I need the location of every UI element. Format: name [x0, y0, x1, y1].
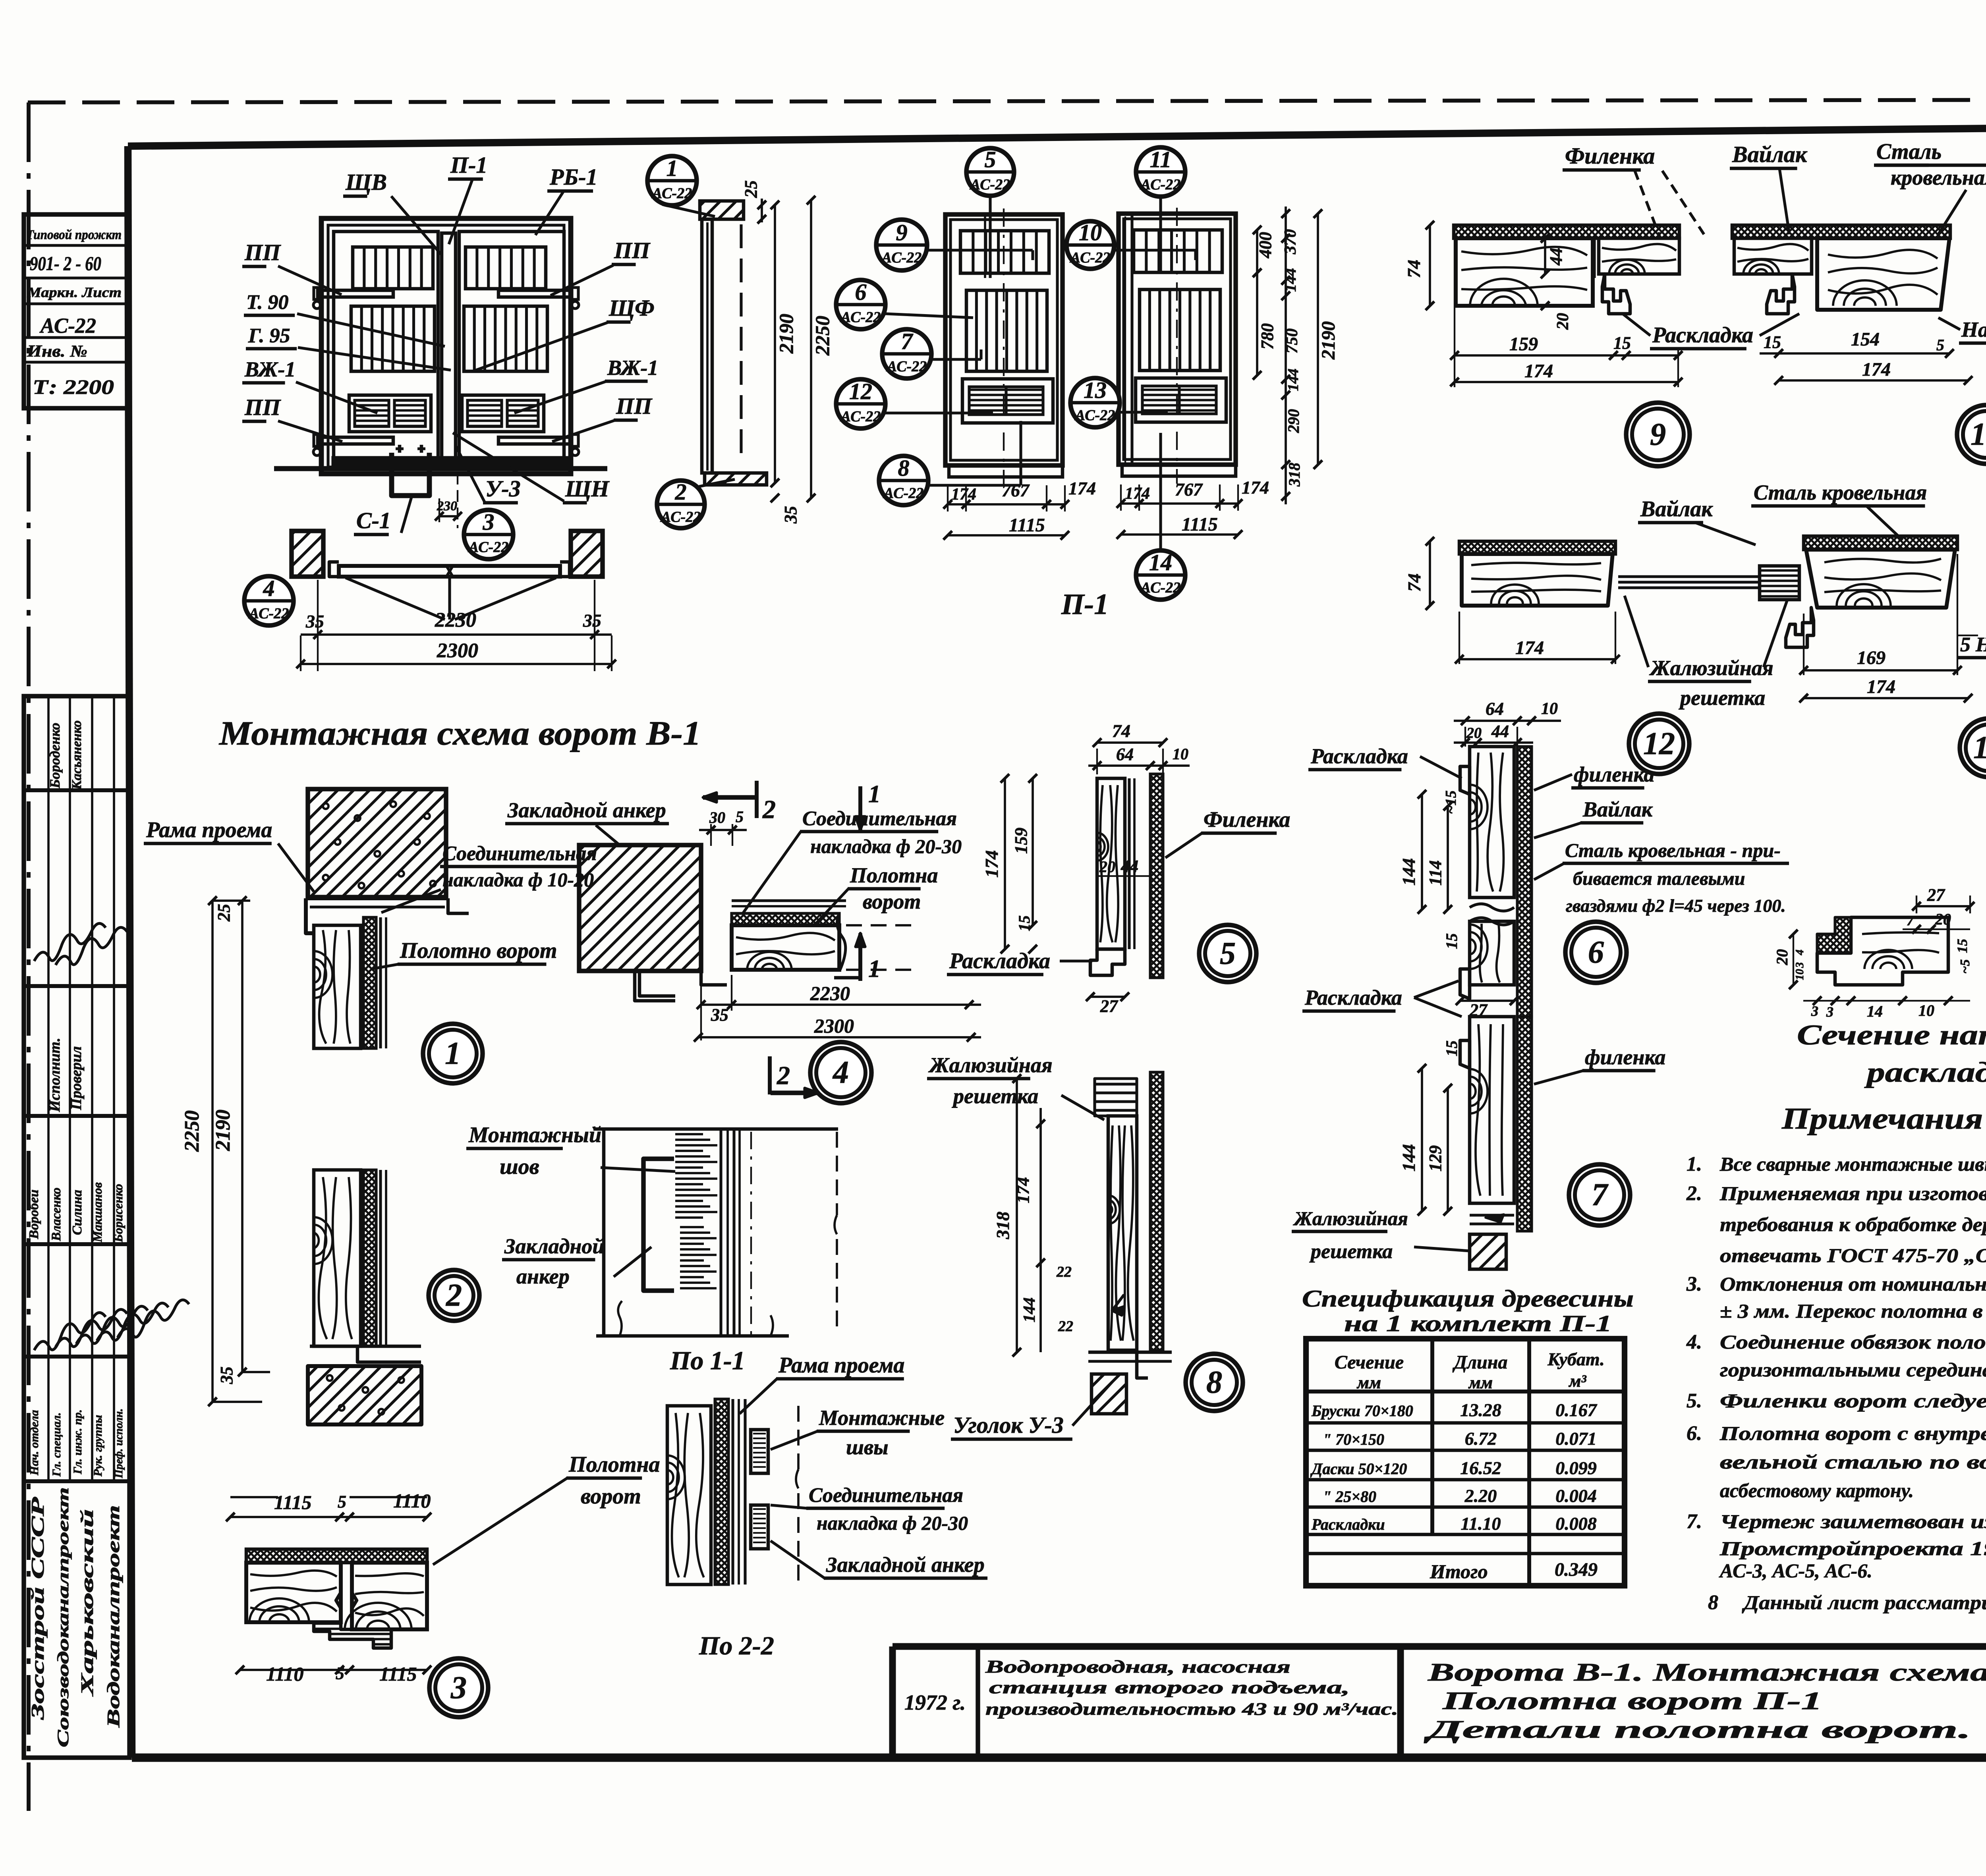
svg-text:Сталь кровельная: Сталь кровельная	[1754, 481, 1927, 504]
svg-text:Полотна: Полотна	[568, 1452, 660, 1477]
svg-text:Т: 2200: Т: 2200	[33, 376, 114, 399]
svg-text:64: 64	[1486, 699, 1504, 719]
detail 5 felt strip	[1150, 774, 1163, 978]
раскладка section dim 27	[1916, 905, 1970, 907]
svg-text:Нащельник: Нащельник	[1961, 318, 1986, 342]
title block vline 2462	[976, 1646, 980, 1758]
gate right mid window	[464, 306, 547, 371]
detail 6 raskladka top	[1460, 766, 1470, 794]
detail 6 plank lower	[1470, 921, 1514, 985]
callout 2 gate side	[657, 481, 705, 528]
detail 5 dim 64-10	[1088, 764, 1190, 767]
svg-text:АС-22: АС-22	[840, 408, 881, 425]
svg-text:12: 12	[1643, 726, 1675, 761]
svg-text:1: 1	[868, 781, 881, 808]
sidebar box A row line 3	[24, 302, 129, 305]
sidebar signature 1	[34, 923, 106, 961]
svg-text:2.: 2.	[1686, 1182, 1702, 1205]
svg-text:решетка: решетка	[952, 1084, 1038, 1108]
detail 4 mark 2 top	[703, 795, 755, 799]
detail 8 hatch block	[1092, 1374, 1126, 1414]
svg-text:Рама проема: Рама проема	[778, 1353, 904, 1378]
svg-text:2230: 2230	[810, 982, 850, 1004]
detail 1 felt strip	[363, 917, 376, 1048]
svg-text:13: 13	[1973, 730, 1986, 765]
detail 4 plank	[732, 925, 839, 970]
svg-text:Власенко: Власенко	[49, 1187, 64, 1241]
detail circle 8	[1186, 1354, 1243, 1411]
svg-text:64: 64	[1116, 745, 1134, 764]
svg-text:асбестовому картону.: асбестовому картону.	[1720, 1479, 1914, 1502]
svg-text:2190: 2190	[212, 1110, 234, 1151]
svg-text:174: 174	[1524, 361, 1553, 382]
side view top anchor block	[700, 201, 744, 219]
svg-text:9: 9	[896, 220, 908, 245]
gate bottom rail right	[498, 437, 571, 444]
svg-text:производительностью 43 и 90 м: производительностью 43 и 90 м³/час.	[985, 1699, 1398, 1719]
spec table vline col1	[1430, 1339, 1434, 1534]
П-1 dim chain small	[1256, 230, 1258, 273]
detail 6 felt strip	[1517, 747, 1532, 1017]
svg-text:318: 318	[993, 1212, 1013, 1239]
svg-text:Полотно ворот: Полотно ворот	[400, 938, 557, 963]
svg-text:АС-22: АС-22	[886, 358, 927, 375]
detail 4 steel angle	[635, 971, 675, 1001]
svg-text:± 3 мм. Перекос полотна в п: ± 3 мм. Перекос полотна в плоскости воро…	[1720, 1300, 1986, 1322]
svg-text:АС-22: АС-22	[881, 249, 922, 266]
svg-text:144: 144	[1281, 268, 1299, 292]
svg-text:15: 15	[1443, 933, 1461, 949]
svg-text:12: 12	[849, 378, 872, 404]
gate hinge pins	[313, 301, 321, 309]
svg-text:Закладной анкер: Закладной анкер	[826, 1553, 985, 1577]
svg-text:станция второго подъема,: станция второго подъема,	[989, 1677, 1350, 1697]
callout 4 lintel	[244, 576, 294, 625]
detail 9 right plank	[1599, 238, 1679, 274]
svg-text:15: 15	[1443, 1040, 1461, 1056]
svg-text:ворот: ворот	[863, 890, 921, 913]
side view dim 2250	[810, 200, 812, 498]
detail 6 dim 64-10	[1454, 720, 1561, 722]
svg-text:8: 8	[898, 455, 910, 481]
svg-text:Чертеж заиметвован из тип: Чертеж заиметвован из типового проекта 4…	[1720, 1510, 1986, 1532]
svg-text:9: 9	[1650, 417, 1666, 452]
По 1-1 dashed right	[836, 1132, 838, 1215]
sidebar hline 3416	[24, 1355, 129, 1359]
svg-text:" 25×80: " 25×80	[1323, 1488, 1376, 1505]
detail 9 dim row 159-15	[1455, 354, 1678, 357]
svg-text:74: 74	[1112, 721, 1130, 741]
detail 12 plank	[1462, 554, 1613, 606]
svg-text:Филенки ворот следует собир: Филенки ворот следует собирать из досок …	[1720, 1390, 1986, 1412]
lintel V leaders	[346, 577, 556, 620]
side view dim 2190	[774, 205, 776, 483]
svg-text:Макшанов: Макшанов	[90, 1182, 104, 1243]
svg-text:Уголок У-3: Уголок У-3	[953, 1412, 1064, 1438]
svg-text:По 1-1: По 1-1	[670, 1346, 745, 1375]
detail 9 dim row 174	[1455, 381, 1678, 383]
detail 4 mark 2 bottom	[768, 1056, 772, 1094]
spec table vline col2	[1527, 1339, 1531, 1586]
svg-text:Водопроводная, насосная: Водопроводная, насосная	[985, 1656, 1291, 1677]
svg-text:35: 35	[781, 506, 800, 524]
svg-text:1: 1	[445, 1036, 461, 1071]
detail 4 dim 35-2230	[701, 1004, 981, 1006]
svg-text:174: 174	[1867, 676, 1895, 697]
svg-text:144: 144	[1285, 369, 1302, 391]
title block vline 3526	[1397, 1646, 1404, 1758]
svg-text:Исполнит.: Исполнит.	[46, 1038, 63, 1112]
spec table row line 3795	[1306, 1505, 1625, 1509]
lintel right masonry block	[571, 531, 603, 577]
svg-text:горизонтальными серединами д: горизонтальными серединами должно осущес…	[1720, 1359, 1986, 1381]
svg-text:6.: 6.	[1687, 1422, 1702, 1445]
sidebar signature row2 col5	[118, 1300, 189, 1338]
svg-text:Отклонения от номинальных ра: Отклонения от номинальных размеров ворот…	[1720, 1273, 1986, 1295]
svg-text:2230: 2230	[435, 609, 476, 631]
По 2-2 dashed edge	[797, 1406, 800, 1469]
detail circle 13	[1960, 718, 1986, 777]
svg-text:швы: швы	[846, 1435, 889, 1459]
detail 4 dim 2300	[698, 1036, 981, 1038]
detail 12 top strip	[1459, 541, 1615, 554]
По 2-2 anchor combs	[751, 1430, 768, 1473]
detail 7 plank	[1470, 1017, 1514, 1203]
detail 2 panel edge	[379, 1170, 382, 1346]
detail 4 plank break	[837, 913, 846, 970]
side view plank	[702, 219, 712, 473]
svg-text:Раскладка: Раскладка	[1652, 323, 1753, 347]
detail circle 3	[429, 1658, 488, 1717]
раскладка section profile	[1817, 917, 1948, 985]
svg-text:ВЖ-1: ВЖ-1	[607, 356, 658, 380]
svg-text:Полотна ворот П-1: Полотна ворот П-1	[1442, 1687, 1822, 1715]
ground line	[274, 466, 607, 471]
detail 4 mark 1 upper	[858, 786, 862, 830]
svg-text:0.167: 0.167	[1555, 1400, 1598, 1420]
svg-text:Даски 50×120: Даски 50×120	[1310, 1460, 1407, 1478]
sidebar hline 2810	[24, 1114, 129, 1118]
svg-text:44: 44	[1491, 722, 1509, 741]
gate centre stile	[442, 233, 456, 463]
detail 12 louver slats	[1618, 575, 1760, 578]
svg-text:Данный лист рассматривать: Данный лист рассматривать совместно с ли…	[1742, 1591, 1986, 1614]
svg-text:вельной сталью по войлоку: вельной сталью по войлоку смоченному в г…	[1720, 1451, 1986, 1473]
svg-text:РБ-1: РБ-1	[549, 164, 598, 190]
svg-text:АС-22: АС-22	[840, 309, 881, 326]
По 1-1 board lines	[719, 1129, 722, 1336]
detail 9 left plank	[1456, 238, 1593, 306]
section 3 joint profile	[336, 1563, 357, 1629]
detail 2 felt strip	[363, 1170, 376, 1346]
svg-text:174: 174	[981, 850, 1002, 878]
svg-text:решетка: решетка	[1309, 1240, 1393, 1263]
svg-text:Полотна: Полотна	[850, 863, 938, 887]
sheet left dash-dot edge	[27, 102, 31, 1811]
svg-text:Гл. инж. пр.: Гл. инж. пр.	[71, 1409, 84, 1475]
svg-text:шов: шов	[500, 1154, 539, 1179]
svg-text:4: 4	[832, 1055, 849, 1090]
svg-text:5: 5	[1220, 936, 1236, 971]
svg-text:Сечение: Сечение	[1335, 1352, 1404, 1373]
svg-text:1: 1	[868, 955, 881, 982]
svg-text:2: 2	[675, 479, 687, 505]
sidebar vline 232 upper	[91, 696, 93, 1481]
svg-text:АС-22: АС-22	[468, 539, 508, 556]
svg-text:174: 174	[1125, 484, 1150, 503]
sidebar hline 2483	[24, 984, 129, 988]
title block left	[889, 1646, 896, 1758]
callout 5	[966, 148, 1014, 196]
detail 1 panel edge	[379, 917, 382, 1048]
svg-text:Борисенко: Борисенко	[111, 1184, 125, 1243]
spec table row line 3864	[1306, 1533, 1625, 1536]
svg-text:Спецификация древесины: Спецификация древесины	[1302, 1285, 1634, 1312]
lintel dim 2230	[301, 633, 612, 636]
svg-text:2190: 2190	[775, 314, 797, 354]
svg-text:767: 767	[1002, 480, 1030, 500]
svg-text:Монтажная схема ворот В-1: Монтажная схема ворот В-1	[218, 714, 701, 752]
svg-text:накладка ф 20-30: накладка ф 20-30	[817, 1512, 968, 1534]
detail 8 plank	[1108, 1116, 1137, 1350]
svg-text:У-3: У-3	[485, 476, 521, 502]
detail 9 top strip	[1454, 225, 1679, 238]
svg-text:раскладки.: раскладки.	[1864, 1056, 1986, 1088]
svg-text:2250: 2250	[811, 316, 833, 356]
callout 3 lintel	[464, 510, 513, 559]
detail 10 top strip	[1732, 225, 1950, 238]
detail 8 angle bottom	[1088, 1351, 1172, 1354]
svg-text:25: 25	[214, 904, 234, 922]
svg-text:901- 2 - 60: 901- 2 - 60	[30, 252, 101, 274]
svg-text:Раскладка: Раскладка	[1310, 744, 1408, 768]
svg-text:кровельная: кровельная	[1891, 166, 1986, 189]
detail 13 dim 174	[1804, 697, 1968, 699]
gate bottom rail left	[318, 437, 393, 444]
svg-text:25: 25	[741, 180, 761, 198]
sidebar signature row2 col1	[34, 1312, 106, 1350]
detail 10 right plank	[1817, 238, 1949, 310]
detail 7 raskladka mid	[1460, 1040, 1470, 1068]
sidebar signature row2 col3	[76, 1306, 148, 1344]
svg-text:174: 174	[1242, 477, 1269, 498]
svg-text:Вайлак: Вайлак	[1582, 797, 1653, 821]
detail 13 raskladka	[1786, 608, 1814, 647]
svg-text:10: 10	[1541, 700, 1558, 718]
svg-text:13: 13	[1084, 377, 1107, 403]
section 3 left plank	[246, 1563, 341, 1622]
svg-text:Проверил: Проверил	[68, 1046, 85, 1110]
svg-text:144: 144	[1399, 1144, 1419, 1172]
gate left mid window	[351, 306, 435, 371]
side view right edge line	[740, 224, 742, 457]
раскладка section dims bottom	[1803, 1000, 1970, 1002]
svg-text:ЩВ: ЩВ	[345, 169, 387, 195]
detail 6 plank upper	[1470, 747, 1514, 897]
svg-text:767: 767	[1175, 479, 1203, 500]
svg-text:20: 20	[1466, 725, 1482, 741]
svg-text:35: 35	[305, 611, 324, 631]
svg-text:Харьковский: Харьковский	[77, 1509, 97, 1697]
svg-text:35: 35	[583, 610, 601, 631]
callout 6	[836, 280, 885, 329]
gate left louver	[349, 395, 431, 432]
callout 1 gate side	[647, 156, 697, 205]
callout 13	[1070, 378, 1120, 427]
svg-text:Соединительная: Соединительная	[802, 807, 957, 830]
svg-text:отвечать ГОСТ 475-70 „Окна и: отвечать ГОСТ 475-70 „Окна и двери дерев…	[1720, 1244, 1986, 1266]
detail 4 nashchelnik top	[732, 899, 846, 902]
detail 13 dim 169	[1804, 669, 1957, 672]
svg-text:Силина: Силина	[70, 1190, 85, 1235]
title block top	[893, 1643, 1986, 1650]
detail 5 plank	[1097, 778, 1125, 949]
svg-text:мм: мм	[1468, 1373, 1493, 1392]
svg-text:требования к обработке дере: требования к обработке деревянных элемен…	[1720, 1213, 1986, 1235]
panel П-1 left	[945, 214, 1063, 465]
svg-text:750: 750	[1283, 328, 1301, 353]
panel П-1 right	[1119, 214, 1236, 465]
svg-text:2300: 2300	[437, 639, 478, 662]
svg-text:14: 14	[1149, 550, 1172, 575]
spec table row line 3726	[1306, 1478, 1625, 1482]
По 1-1 anchor rect	[643, 1159, 674, 1291]
svg-text:Раскладки: Раскладки	[1311, 1515, 1385, 1533]
sidebar hline 3730	[24, 1479, 129, 1483]
detail 4 felt strip	[732, 913, 839, 925]
svg-text:1115: 1115	[274, 1491, 311, 1513]
svg-text:1115: 1115	[379, 1663, 417, 1685]
svg-text:4: 4	[1794, 950, 1806, 955]
svg-text:27: 27	[1927, 885, 1945, 905]
svg-text:0.099: 0.099	[1555, 1458, 1597, 1478]
callout 7	[882, 329, 931, 378]
svg-text:Нач. отдела: Нач. отдела	[28, 1410, 41, 1476]
svg-text:Рама проема: Рама проема	[146, 818, 272, 842]
svg-text:11: 11	[1150, 147, 1172, 172]
gate threshold	[333, 457, 568, 468]
svg-text:3: 3	[450, 1670, 467, 1705]
svg-text:15: 15	[1015, 915, 1033, 931]
svg-text:27: 27	[1100, 996, 1119, 1016]
detail 5 dim 74	[1097, 741, 1163, 744]
sidebar box A row line 4	[24, 336, 129, 339]
lintel right angle	[560, 562, 570, 577]
svg-text:АС-22: АС-22	[1074, 407, 1115, 424]
callout 10	[1066, 221, 1114, 269]
spec table row line 3583	[1306, 1421, 1625, 1425]
svg-text:ворот: ворот	[581, 1484, 641, 1509]
svg-text:174: 174	[1515, 637, 1544, 658]
По 2-2 board lines	[731, 1399, 734, 1585]
П-1 dim 2190	[1317, 214, 1319, 465]
svg-text:решетка: решетка	[1679, 686, 1765, 710]
svg-text:2.20: 2.20	[1464, 1486, 1497, 1506]
svg-text:400: 400	[1256, 232, 1275, 259]
svg-text:780: 780	[1258, 323, 1277, 349]
spec table frame	[1306, 1339, 1625, 1586]
svg-text:44: 44	[1546, 248, 1566, 266]
sidebar vline 122 upper	[47, 696, 50, 1481]
detail 5 edge lines	[1128, 778, 1130, 949]
svg-text:5: 5	[985, 147, 996, 172]
section 3 dim top	[230, 1516, 427, 1518]
svg-text:~5: ~5	[1958, 959, 1972, 974]
detail circle 1	[423, 1024, 483, 1083]
svg-text:44: 44	[1121, 857, 1138, 876]
spec table итого line	[1306, 1552, 1625, 1556]
svg-text:АС-22: АС-22	[1070, 249, 1110, 266]
svg-text:169: 169	[1857, 647, 1886, 668]
svg-text:2: 2	[446, 1278, 462, 1313]
svg-text:10: 10	[1794, 969, 1806, 980]
svg-text:Вайлак: Вайлак	[1732, 141, 1808, 167]
main frame bottom	[132, 1753, 1986, 1762]
svg-text:8: 8	[1708, 1591, 1718, 1614]
svg-text:13.28: 13.28	[1460, 1400, 1501, 1420]
svg-text:П-1: П-1	[1061, 588, 1109, 621]
svg-text:2300: 2300	[814, 1015, 854, 1037]
detail 6 dim 20-44	[1454, 741, 1533, 744]
По 1-1 left line	[602, 1129, 606, 1336]
detail 7 slats bottom	[1470, 1214, 1514, 1216]
svg-text:ПП: ПП	[244, 394, 281, 420]
svg-text:Касьяненко: Касьяненко	[70, 720, 84, 790]
svg-text:Союзводоканалпроект: Союзводоканалпроект	[54, 1487, 72, 1747]
detail 4 dims 30-5	[710, 824, 712, 846]
detail 10 left plank	[1734, 238, 1812, 274]
svg-text:ПП: ПП	[616, 393, 653, 419]
svg-text:1115: 1115	[1182, 514, 1218, 535]
sidebar box A row line 1	[24, 244, 129, 247]
svg-text:мм: мм	[1356, 1373, 1381, 1392]
svg-text:3: 3	[1794, 962, 1806, 968]
svg-text:4: 4	[263, 575, 275, 601]
svg-text:накладка ф 20-30: накладка ф 20-30	[810, 835, 962, 857]
detail 6 raskladka bottom	[1460, 969, 1470, 999]
sidebar hline 1990	[24, 788, 129, 792]
По 1-1 top line	[593, 1127, 838, 1131]
svg-text:7: 7	[901, 328, 914, 354]
svg-text:6: 6	[1588, 935, 1604, 970]
lintel dim 2300	[301, 663, 612, 665]
svg-text:1110: 1110	[266, 1663, 303, 1685]
detail 5 raskladka bottom	[1090, 949, 1125, 975]
detail 7 felt strip	[1517, 1017, 1532, 1231]
svg-text:22: 22	[1058, 1318, 1073, 1335]
svg-text:Вайлак: Вайлак	[1640, 497, 1713, 521]
svg-text:7.: 7.	[1687, 1510, 1702, 1533]
svg-text:174: 174	[1068, 478, 1096, 498]
sidebar vline 287 upper	[113, 696, 115, 1481]
gate top rail right	[498, 290, 571, 297]
svg-text:Зосстрой СССР: Зосстрой СССР	[27, 1496, 48, 1720]
svg-text:159: 159	[1509, 334, 1538, 355]
sidebar signature row2 col2	[56, 1309, 127, 1347]
main frame top	[128, 124, 1986, 146]
svg-text:74: 74	[1404, 573, 1424, 592]
svg-text:5: 5	[338, 1492, 346, 1511]
svg-text:П-1: П-1	[450, 152, 487, 178]
svg-text:на 1 комплект П-1: на 1 комплект П-1	[1344, 1310, 1612, 1336]
detail 8 arrow marks	[1112, 1307, 1124, 1315]
svg-text:144: 144	[1399, 858, 1419, 886]
svg-text:" 70×150: " 70×150	[1323, 1430, 1384, 1448]
detail 1 concrete block	[308, 789, 446, 897]
svg-text:Т. 90: Т. 90	[246, 291, 289, 314]
detail circle 2	[429, 1270, 479, 1321]
svg-text:6: 6	[855, 279, 867, 305]
